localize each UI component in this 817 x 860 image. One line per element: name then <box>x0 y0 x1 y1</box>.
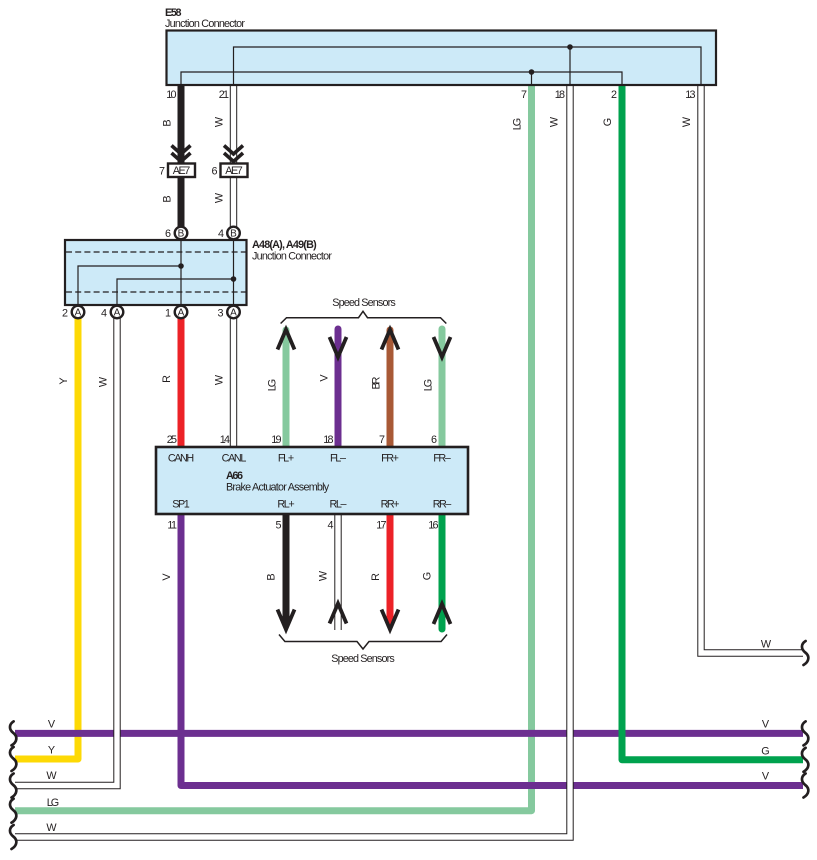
svg-text:R: R <box>161 375 173 383</box>
svg-text:18: 18 <box>323 434 333 446</box>
svg-text:G: G <box>422 572 434 580</box>
svg-text:Junction Connector: Junction Connector <box>165 18 245 30</box>
svg-text:G: G <box>602 118 614 126</box>
svg-text:6: 6 <box>165 228 171 240</box>
svg-text:A66: A66 <box>226 470 243 482</box>
svg-text:1: 1 <box>165 308 171 320</box>
svg-text:V: V <box>319 374 331 382</box>
svg-text:RR–: RR– <box>433 499 452 511</box>
svg-text:W: W <box>761 639 772 651</box>
svg-text:RL–: RL– <box>330 499 347 511</box>
svg-text:Speed Sensors: Speed Sensors <box>332 297 396 309</box>
svg-text:B: B <box>178 228 185 239</box>
svg-text:FR–: FR– <box>433 453 451 465</box>
svg-text:21: 21 <box>219 89 229 101</box>
svg-text:LG: LG <box>423 379 435 391</box>
svg-text:W: W <box>318 570 330 581</box>
svg-text:17: 17 <box>376 520 386 532</box>
svg-text:W: W <box>98 376 110 387</box>
svg-text:BR: BR <box>371 376 383 389</box>
svg-text:W: W <box>681 116 693 127</box>
svg-text:4: 4 <box>101 308 107 320</box>
svg-text:W: W <box>46 770 57 782</box>
svg-text:R: R <box>370 573 382 581</box>
svg-text:7: 7 <box>521 89 527 101</box>
svg-text:A48(A), A49(B): A48(A), A49(B) <box>252 239 317 251</box>
svg-text:W: W <box>46 822 57 834</box>
svg-text:SP1: SP1 <box>172 499 190 511</box>
svg-text:G: G <box>761 746 769 758</box>
svg-text:LG: LG <box>512 118 524 130</box>
svg-text:V: V <box>161 573 173 581</box>
svg-text:B: B <box>162 119 174 126</box>
svg-text:V: V <box>48 719 56 731</box>
svg-text:Speed Sensors: Speed Sensors <box>331 653 395 665</box>
svg-text:11: 11 <box>167 520 177 532</box>
svg-text:25: 25 <box>167 434 177 446</box>
svg-text:CANL: CANL <box>222 453 247 465</box>
svg-text:14: 14 <box>220 434 230 446</box>
svg-text:19: 19 <box>271 434 281 446</box>
svg-text:Junction Connector: Junction Connector <box>252 251 332 263</box>
svg-text:13: 13 <box>685 89 695 101</box>
svg-text:AE7: AE7 <box>173 165 191 177</box>
svg-text:4: 4 <box>218 228 224 240</box>
svg-text:A: A <box>178 307 185 318</box>
svg-text:V: V <box>762 771 770 783</box>
svg-text:7: 7 <box>159 166 165 178</box>
svg-text:10: 10 <box>166 89 176 101</box>
svg-text:W: W <box>549 116 561 127</box>
svg-text:2: 2 <box>62 308 68 320</box>
svg-text:FL–: FL– <box>330 453 346 465</box>
svg-text:FR+: FR+ <box>381 453 399 465</box>
svg-text:Brake Actuator Assembly: Brake Actuator Assembly <box>226 482 330 494</box>
svg-text:W: W <box>214 374 226 385</box>
svg-text:B: B <box>266 573 278 580</box>
svg-text:7: 7 <box>379 434 385 446</box>
svg-text:3: 3 <box>217 308 223 320</box>
svg-text:W: W <box>214 116 226 127</box>
svg-text:V: V <box>762 719 770 731</box>
svg-text:CANH: CANH <box>168 453 194 465</box>
svg-text:W: W <box>214 192 226 203</box>
svg-text:2: 2 <box>611 89 617 101</box>
svg-text:B: B <box>230 228 237 239</box>
svg-text:6: 6 <box>431 434 437 446</box>
svg-text:6: 6 <box>211 166 217 178</box>
svg-text:B: B <box>162 195 174 202</box>
svg-text:Y: Y <box>48 745 55 757</box>
svg-text:A: A <box>75 307 82 318</box>
svg-text:AE7: AE7 <box>225 165 243 177</box>
svg-text:A: A <box>230 307 237 318</box>
svg-text:RL+: RL+ <box>277 499 294 511</box>
svg-text:RR+: RR+ <box>381 499 400 511</box>
svg-text:LG: LG <box>267 379 279 391</box>
svg-text:5: 5 <box>275 520 281 532</box>
svg-text:FL+: FL+ <box>278 453 294 465</box>
svg-text:16: 16 <box>428 520 438 532</box>
svg-text:A: A <box>114 307 121 318</box>
svg-text:18: 18 <box>555 89 565 101</box>
svg-text:4: 4 <box>327 520 333 532</box>
svg-text:LG: LG <box>47 797 59 809</box>
svg-text:Y: Y <box>58 377 70 384</box>
